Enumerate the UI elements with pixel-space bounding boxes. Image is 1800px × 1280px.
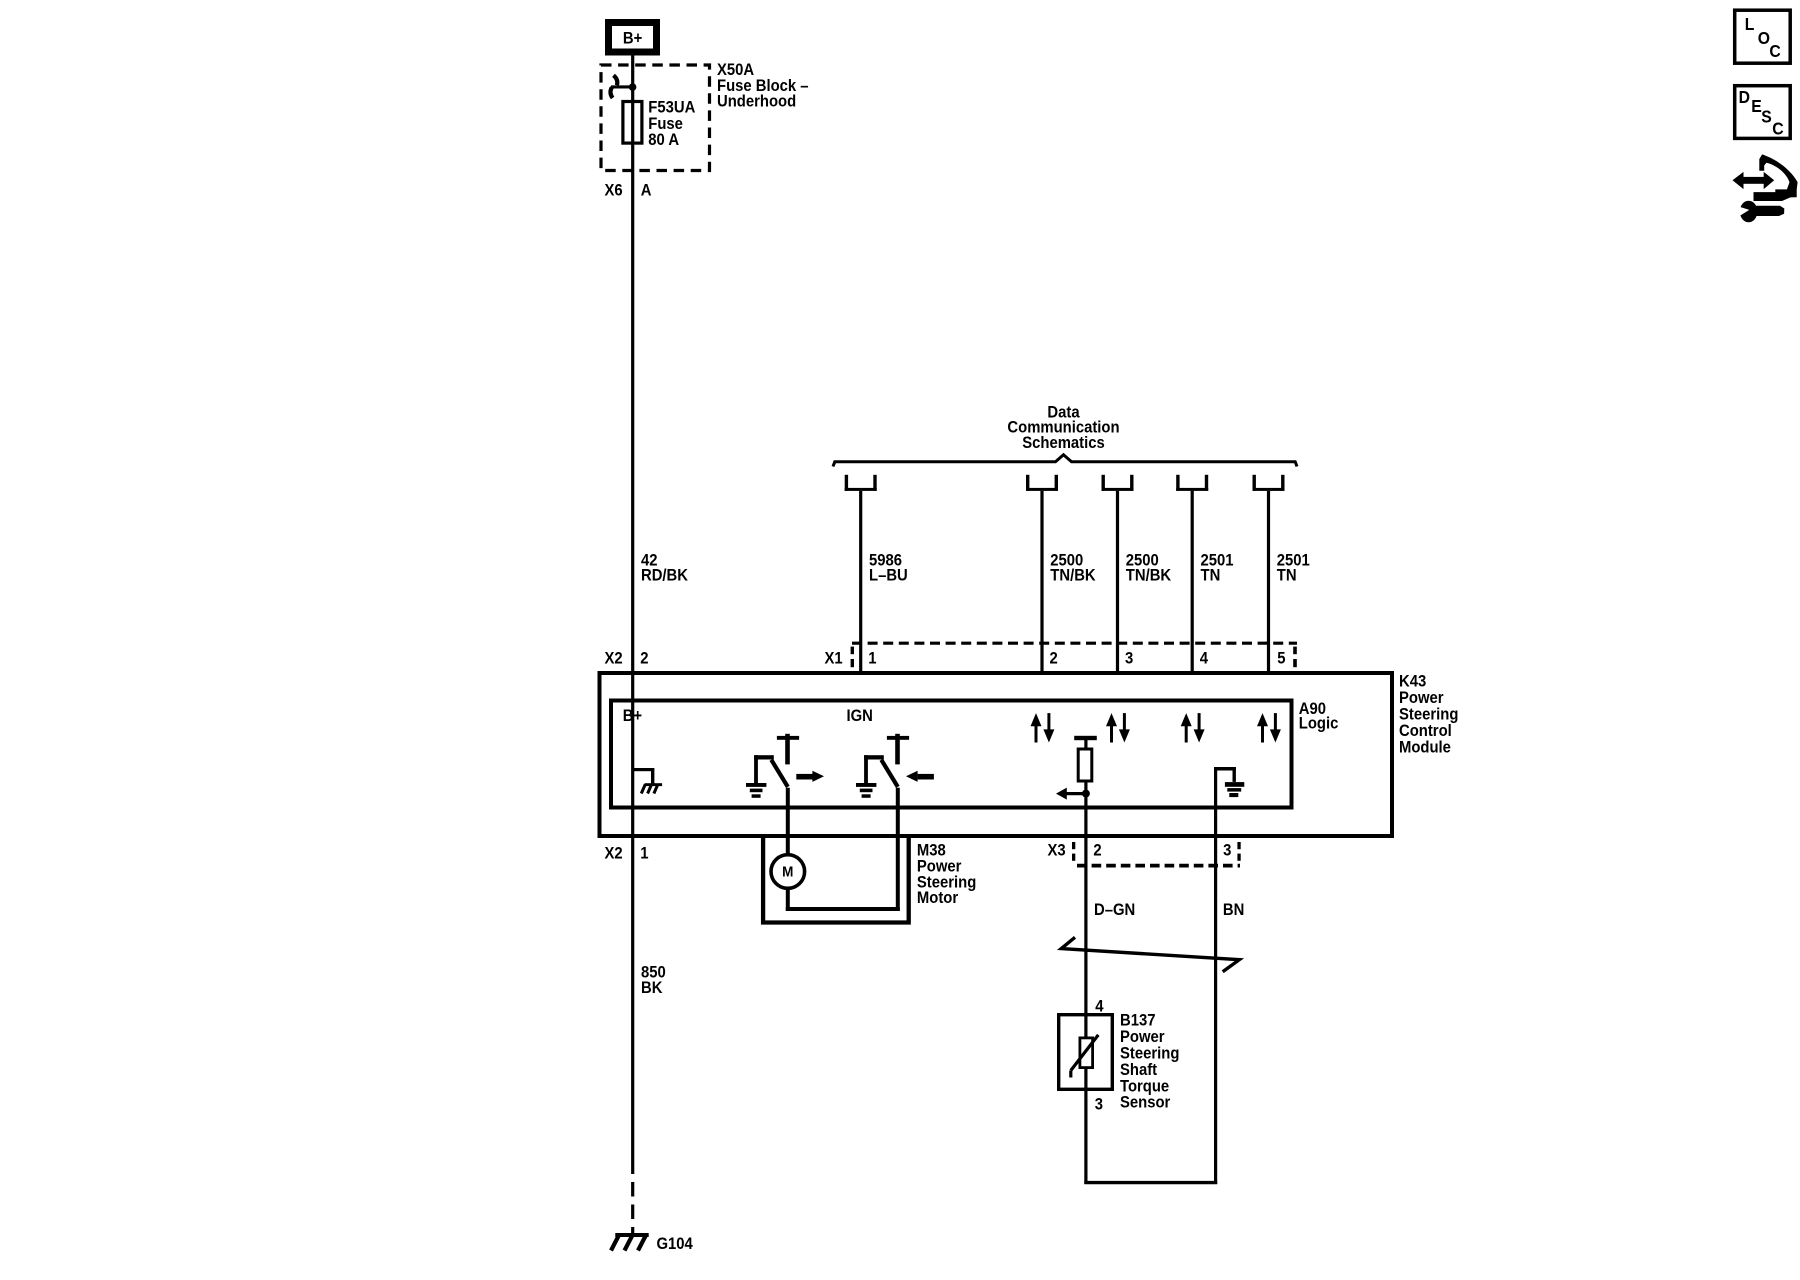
svg-text:M: M: [782, 864, 793, 881]
svg-text:TN/BK: TN/BK: [1050, 567, 1096, 585]
service icon double arrow: [1733, 172, 1775, 189]
svg-text:L: L: [1745, 14, 1755, 34]
sensor B137 box: [1059, 1015, 1113, 1090]
svg-text:E: E: [1751, 96, 1761, 116]
pin label 2 (X2): [640, 650, 649, 668]
bidirectional signal arrows 4: [1257, 713, 1281, 742]
wire motor right: [896, 788, 900, 911]
wire label 2501 TN: [1277, 552, 1310, 585]
svg-text:4: 4: [1200, 650, 1209, 668]
motor M38 component box: [763, 838, 909, 923]
label G104: [657, 1235, 694, 1253]
pin label X6: [605, 182, 623, 200]
connector X3 dashed line: [1077, 864, 1240, 868]
module A90 logic inner box: [611, 701, 1292, 808]
pin label X2 bottom: [605, 845, 623, 863]
pin label 4 (X1): [1200, 650, 1209, 668]
off-page connector symbol 4: [1176, 475, 1208, 491]
svg-text:C: C: [1769, 41, 1780, 61]
label X50A Fuse Block Underhood: [717, 61, 809, 111]
svg-text:BN: BN: [1223, 901, 1244, 919]
svg-text:Sensor: Sensor: [1120, 1094, 1170, 1112]
pin label X3: [1048, 842, 1066, 860]
svg-text:B137: B137: [1120, 1012, 1156, 1030]
bidirectional signal arrows 1: [1031, 713, 1055, 742]
transistor switch 2 (motor drive right): [856, 734, 934, 798]
connector X1 left bracket dashes: [851, 647, 854, 668]
svg-text:2: 2: [1050, 650, 1059, 668]
off-page connector symbol 3: [1102, 475, 1134, 491]
label IGN inside module: [847, 707, 873, 725]
wire sensor return loop bottom: [1084, 1181, 1217, 1184]
pin label 3 (X3): [1223, 842, 1232, 860]
svg-text:Module: Module: [1399, 739, 1451, 757]
wire ground dashed segment: [631, 1182, 634, 1233]
wire label 2500 TN/BK: [1126, 552, 1172, 585]
svg-text:Motor: Motor: [917, 889, 958, 907]
svg-text:IGN: IGN: [847, 707, 873, 725]
svg-text:B+: B+: [623, 707, 642, 725]
label M38 Power Steering Motor: [917, 842, 976, 907]
pin label 1 (X1): [868, 650, 877, 668]
pin label 2 (X3): [1093, 842, 1102, 860]
connector X1 dashed line: [852, 642, 1297, 645]
pin label 1 (X2): [640, 845, 649, 863]
internal chassis ground branch: [633, 768, 662, 794]
icon box LOC: [1735, 10, 1791, 63]
wire data 2 vertical: [1040, 491, 1043, 671]
wire label 2500 TN/BK: [1050, 552, 1096, 585]
wire label BN: [1223, 901, 1244, 919]
wire 42 RD/BK main battery feed vertical: [631, 55, 634, 1174]
svg-text:TN: TN: [1201, 567, 1221, 585]
off-page connector symbol 5: [1253, 475, 1285, 491]
svg-text:3: 3: [1223, 842, 1232, 860]
svg-text:2: 2: [1093, 842, 1102, 860]
svg-text:80 A: 80 A: [648, 132, 679, 150]
wire D-GN torque sensor signal: [1084, 800, 1087, 1184]
connector X3 right bracket dashes: [1237, 842, 1240, 861]
bidirectional signal arrows 2: [1106, 713, 1130, 742]
svg-text:Control: Control: [1399, 723, 1452, 741]
wire label 850 BK: [641, 964, 666, 997]
svg-text:TN: TN: [1277, 567, 1297, 585]
connector X1 right bracket dashes: [1293, 647, 1297, 668]
icon box DESC: [1735, 86, 1791, 139]
label A90 Logic: [1299, 700, 1339, 732]
svg-text:G104: G104: [657, 1235, 694, 1253]
label F53UA Fuse 80A: [648, 99, 695, 150]
svg-text:Steering: Steering: [1120, 1045, 1179, 1063]
svg-text:Schematics: Schematics: [1022, 434, 1105, 452]
svg-text:1: 1: [640, 845, 649, 863]
svg-text:1: 1: [868, 650, 877, 668]
wire data 5 vertical: [1267, 491, 1270, 671]
wire data 3 vertical: [1116, 491, 1119, 671]
svg-text:S: S: [1761, 107, 1771, 127]
wire label D-GN: [1094, 901, 1135, 919]
pin label 3 (X1): [1125, 650, 1134, 668]
node B+ battery positive box: [609, 23, 657, 53]
svg-text:X3: X3: [1048, 842, 1066, 860]
ground G104 symbol: [611, 1233, 649, 1251]
pin label 5 (X1): [1277, 650, 1286, 668]
fuse F53UA symbol: [623, 102, 642, 144]
service icon curved arrow: [1754, 154, 1798, 201]
svg-text:X6: X6: [605, 182, 623, 200]
svg-text:A: A: [641, 182, 652, 200]
pin label X1: [825, 650, 843, 668]
svg-text:2: 2: [640, 650, 649, 668]
svg-text:F53UA: F53UA: [648, 99, 695, 117]
service icon wrench: [1736, 201, 1785, 223]
pin label 3 (B137): [1095, 1096, 1104, 1114]
svg-text:RD/BK: RD/BK: [641, 567, 689, 585]
svg-text:L–BU: L–BU: [869, 567, 908, 585]
svg-text:BK: BK: [641, 979, 663, 997]
bidirectional signal arrows 3: [1181, 713, 1205, 742]
svg-text:Logic: Logic: [1299, 715, 1339, 733]
wire motor loop bottom: [786, 907, 900, 911]
svg-text:K43: K43: [1399, 673, 1426, 691]
fuse block X50A dashed outline: [601, 65, 710, 171]
pin label 2 (X1): [1050, 650, 1059, 668]
svg-text:3: 3: [1095, 1096, 1104, 1114]
svg-text:Torque: Torque: [1120, 1078, 1169, 1096]
svg-text:X2: X2: [605, 650, 623, 668]
twisted-pair crossing symbol: [1061, 937, 1239, 971]
wire label 42 RD/BK: [641, 552, 689, 585]
motor M circle symbol: [771, 855, 805, 889]
svg-text:Power: Power: [1120, 1028, 1165, 1046]
svg-text:Fuse: Fuse: [648, 115, 683, 133]
connector clip symbol inside fuse block: [610, 75, 636, 98]
wire motor left: [786, 788, 790, 911]
module K43 outer box: [600, 673, 1393, 836]
variable sensor element symbol: [1071, 1035, 1099, 1078]
wire BN torque sensor return: [1214, 768, 1217, 1184]
label Data Communication Schematics: [1007, 404, 1119, 452]
wire data 4 vertical: [1191, 491, 1194, 671]
label B+ inside module: [623, 707, 642, 725]
internal sensor resistor with tap: [1056, 736, 1097, 800]
svg-text:B+: B+: [623, 30, 642, 48]
svg-text:X2: X2: [605, 845, 623, 863]
label B137 Power Steering Shaft Torque Sensor: [1120, 1012, 1179, 1112]
off-page connector symbol 1: [845, 475, 877, 491]
svg-text:3: 3: [1125, 650, 1134, 668]
brace over data communication connectors: [833, 455, 1297, 467]
pin label 4 (B137): [1095, 998, 1104, 1016]
svg-text:Power: Power: [1399, 690, 1444, 708]
pin label A: [641, 182, 652, 200]
wire label 2501 TN: [1201, 552, 1234, 585]
svg-text:Shaft: Shaft: [1120, 1061, 1158, 1079]
transistor switch 1 (motor drive left): [746, 734, 824, 798]
internal signal ground: [1214, 767, 1244, 797]
svg-text:O: O: [1758, 28, 1770, 48]
svg-text:Underhood: Underhood: [717, 93, 796, 111]
svg-text:D–GN: D–GN: [1094, 901, 1135, 919]
svg-text:TN/BK: TN/BK: [1126, 567, 1172, 585]
svg-text:C: C: [1772, 119, 1783, 139]
wire data 1 vertical: [859, 491, 862, 671]
wire label 5986 L–BU: [869, 552, 908, 585]
svg-text:D: D: [1739, 87, 1750, 107]
connector X3 left bracket dashes: [1072, 842, 1075, 861]
svg-text:Steering: Steering: [1399, 706, 1458, 724]
svg-text:5: 5: [1277, 650, 1286, 668]
label K43 Power Steering Control Module: [1399, 673, 1458, 757]
off-page connector symbol 2: [1026, 475, 1058, 491]
svg-text:X1: X1: [825, 650, 843, 668]
pin label X2: [605, 650, 623, 668]
